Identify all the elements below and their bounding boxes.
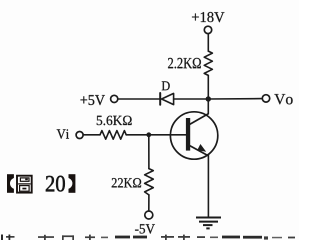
label D	[162, 81, 170, 90]
caption number 20	[46, 176, 65, 192]
diode D cathode bar	[159, 93, 161, 105]
diode D triangle (cathode left)	[162, 93, 174, 104]
resistor R2 5.6K zigzag (horizontal)	[100, 131, 126, 140]
label +5V	[81, 95, 105, 105]
label +18V	[192, 12, 224, 22]
wire : base node down to resistor R3 top	[148, 135, 150, 169]
Vi terminal circle	[76, 132, 83, 139]
transistor Q1 base bar	[186, 118, 190, 151]
wire : resistor R3 bottom to -5V terminal	[148, 195, 150, 211]
wire : collector node left to diode anode	[174, 98, 209, 100]
label Vo	[274, 94, 292, 104]
caption right bracket 】	[69, 174, 76, 193]
wire : Vi terminal to resistor R2	[83, 134, 100, 136]
ground symbol	[196, 218, 221, 229]
wire : base node to transistor base	[149, 134, 187, 136]
transistor Q1 emitter arrowhead	[197, 144, 206, 152]
wire : +18V terminal to resistor R1 top	[207, 34, 209, 52]
figure caption 【圖 20】	[7, 174, 75, 193]
node : collector junction dot	[206, 96, 211, 101]
cut-off bottom text row (partial glyph tops)	[1, 235, 295, 240]
node : base junction dot	[146, 132, 151, 137]
label 22KΩ	[112, 178, 141, 187]
label 2.2KΩ	[168, 58, 201, 69]
wire : resistor R1 bottom to collector node	[207, 75, 209, 99]
wire : resistor R2 to base node	[126, 134, 149, 136]
wire : collector node down to transistor collector	[207, 99, 209, 114]
transistor Q1	[170, 112, 217, 159]
transistor Q1 emitter lead	[189, 145, 208, 155]
resistor R1 2.2K zigzag (vertical)	[204, 51, 212, 75]
wire : transistor emitter to ground	[207, 155, 209, 218]
transistor Q1 circle	[170, 112, 217, 159]
label 5.6KΩ	[97, 116, 132, 126]
+5V terminal circle	[111, 95, 118, 102]
wire : collector node right to Vo terminal	[208, 98, 262, 100]
wire : diode cathode to +5V terminal	[118, 98, 160, 100]
Vo terminal circle	[262, 95, 269, 102]
caption left bracket 【	[7, 174, 14, 193]
label Vi	[57, 129, 69, 139]
resistor R3 22K zigzag (vertical)	[145, 169, 154, 195]
+18V terminal circle	[204, 26, 211, 33]
-5V terminal circle	[145, 211, 153, 219]
transistor Q1 collector lead	[189, 114, 208, 125]
caption 圖 glyph	[17, 176, 32, 193]
label -5V	[135, 224, 155, 233]
